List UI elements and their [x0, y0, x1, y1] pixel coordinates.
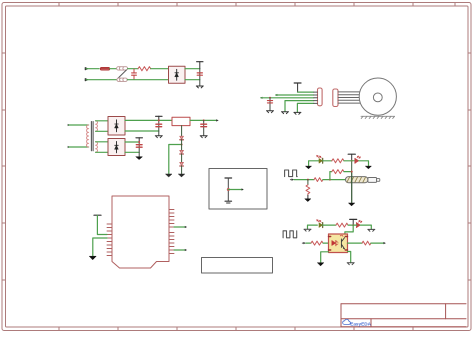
square wave symbol SW1: [285, 170, 298, 177]
transformer T1 primary winding: [87, 125, 89, 147]
wire LED2 to gnd: [359, 161, 369, 166]
junction dot: [203, 119, 205, 121]
capacitor C2: [156, 124, 162, 127]
resistor R5: [332, 159, 344, 163]
pin end P2: [275, 94, 277, 96]
ground GND7: [282, 112, 289, 114]
voltage regulator U2: [172, 117, 190, 125]
wire R1 to bridge: [151, 68, 169, 70]
wire rail over crystal: [351, 172, 353, 203]
LED LED2: [352, 156, 361, 163]
wire B3 plus: [125, 141, 139, 143]
wire sec2 top to bridge B3: [96, 141, 108, 143]
connector J1: [314, 88, 322, 106]
power flag V7: [225, 177, 232, 179]
junction dot: [307, 179, 309, 181]
wire B3 minus: [125, 151, 139, 153]
ground GND8: [294, 112, 301, 114]
pin end PU1: [242, 188, 244, 190]
wire conn pin4: [285, 101, 314, 112]
wire bridge out plus: [185, 68, 200, 70]
wire fuse to choke: [110, 68, 117, 70]
power flag V1: [156, 116, 162, 120]
pin AC2: [68, 146, 70, 148]
wire AC1 to primary: [69, 124, 89, 126]
ground GND9 arrow: [307, 195, 309, 199]
wire opto collector out: [348, 242, 363, 244]
power flag VDC1: [197, 62, 203, 69]
wire conn pin5: [297, 103, 313, 112]
bridge rectifier B1: [169, 66, 186, 83]
resistor R4: [332, 170, 344, 174]
pin CLK1: [292, 178, 294, 181]
ground GND14: [368, 229, 375, 231]
wire B2 plus to regulator: [125, 119, 172, 121]
LED LED1: [317, 155, 323, 163]
ground GND11 arrow: [306, 166, 312, 169]
wire N to choke: [86, 79, 117, 81]
LED LED3: [317, 220, 323, 228]
wire pullup stem: [227, 178, 229, 201]
wire B2 minus: [125, 130, 159, 132]
junction dot: [138, 141, 140, 143]
junction dot: [158, 119, 160, 121]
wire R4 to rail: [344, 171, 352, 173]
wire sec1 top to bridge B2: [96, 120, 108, 122]
wire conn pin1: [298, 91, 314, 93]
wire bridge out minus: [185, 79, 200, 81]
ground GND1: [196, 86, 203, 88]
junction dot: [329, 179, 331, 181]
bridge rectifier B2: [108, 117, 125, 136]
LED LED4: [357, 220, 362, 227]
ground GND15: [347, 263, 354, 265]
ground GND12 arrow: [366, 166, 372, 169]
wire LED1 to R5: [323, 160, 332, 162]
ground GND2: [155, 136, 162, 138]
wire R2 stem: [307, 180, 309, 185]
node N pin: [85, 79, 87, 81]
capacitor C5 stem: [269, 98, 271, 111]
wire branch to GND4: [169, 145, 182, 174]
resistor R8: [362, 241, 371, 245]
junction dot: [351, 171, 353, 173]
transformer T1 secondary winding 2: [96, 142, 98, 153]
motor M1 shaft: [373, 93, 382, 102]
motor mount earth: [361, 116, 395, 118]
choke core diagonal: [118, 70, 127, 79]
IC U1 left pins: [107, 224, 112, 256]
wire LED4 to gnd: [353, 225, 371, 229]
ground GND3: [200, 136, 207, 138]
wire R8 to pin: [371, 242, 384, 244]
capacitor C3: [201, 124, 207, 127]
capacitor CX1: [132, 69, 137, 79]
diode D2: [180, 150, 184, 162]
wire U1 out1: [174, 226, 185, 228]
pin end P3: [260, 97, 262, 99]
wire R5 to rail: [344, 160, 352, 162]
wire U1 vcc: [97, 215, 107, 234]
node L pin: [85, 68, 87, 70]
power flag V6: [94, 215, 101, 234]
transformer T1 core: [91, 122, 93, 151]
svg-text:EasyEDA: EasyEDA: [350, 321, 371, 326]
wire U1 out2: [174, 249, 185, 251]
diode D3: [180, 162, 184, 173]
resistor R2 vertical: [306, 185, 310, 195]
wire R3 to crystal: [323, 179, 346, 181]
resistor R6: [336, 223, 348, 227]
wire C2 stem: [158, 120, 160, 135]
wire D1 to D2: [181, 140, 183, 151]
transformer T1 secondary winding 1: [96, 121, 98, 132]
ground GND6: [267, 111, 274, 113]
motor leads: [338, 92, 360, 103]
connector J2: [333, 89, 338, 107]
wire AC2 to primary: [69, 146, 89, 148]
motor M1 body: [359, 78, 396, 115]
pin end U1out2: [185, 249, 187, 251]
square wave symbol SW2: [283, 231, 297, 238]
resistor R1: [138, 67, 151, 71]
wire rail to opto: [345, 225, 353, 234]
wire LED3 to R6: [323, 224, 336, 226]
wire IN2 to R7: [306, 242, 311, 244]
IC U1 right pins group2: [169, 233, 174, 254]
fuse F1: [100, 67, 109, 70]
pin end U1out1: [185, 226, 187, 228]
wire L to fuse: [86, 68, 99, 70]
wire C4 stem: [138, 142, 140, 156]
pin end OUT2: [384, 242, 386, 244]
IC U1 right pins group1: [169, 210, 174, 228]
diode D1: [180, 136, 184, 140]
wire sec2 bottom to bridge B3: [96, 151, 108, 153]
optocoupler U3: [329, 234, 348, 253]
crystal Y1 body: [346, 177, 380, 183]
title block table: [341, 304, 466, 327]
power flag V2: [136, 138, 142, 142]
module box frame: [209, 169, 267, 210]
wire R7 to opto: [323, 242, 328, 244]
wire choke bottom to bridge: [127, 79, 168, 81]
notes rectangle: [202, 258, 273, 274]
ground GND4 arrow: [166, 174, 172, 177]
wire R6 to junction: [348, 224, 353, 226]
EasyEDA logo: [343, 319, 372, 326]
wire CLK1 input: [294, 179, 314, 181]
pin end IN2: [303, 242, 305, 244]
wire regulator out: [190, 119, 216, 121]
ground GND13: [304, 229, 311, 231]
ground GND16 arrow: [89, 256, 96, 260]
ground AGND1: [136, 157, 143, 160]
junction dot: [269, 97, 271, 99]
wire sec1 bottom to bridge B2: [96, 130, 108, 132]
IC U1 body: [112, 196, 169, 268]
capacitor C4: [136, 145, 142, 148]
resistor R7: [311, 241, 323, 245]
wire conn pin3: [261, 97, 314, 99]
wire opto emitter to gnd: [348, 252, 351, 263]
bridge rectifier B3: [108, 139, 125, 156]
junction dot: [352, 224, 354, 226]
ground GND17 bar: [225, 201, 232, 203]
resistor R3: [314, 178, 323, 182]
wire choke to bridge top: [128, 68, 138, 70]
wire pullup out: [228, 189, 242, 191]
junction dot: [181, 144, 183, 146]
power flag V5: [350, 219, 357, 225]
wire feedback up: [330, 172, 332, 180]
wire V4 rail down: [351, 161, 353, 203]
capacitor C1: [197, 73, 202, 75]
wire LED1 row left: [309, 161, 319, 166]
wire conn pin2: [276, 94, 314, 96]
inductor L1 bottom winding: [117, 78, 127, 81]
pin AC1: [68, 124, 70, 126]
wire LED3 row left: [308, 225, 318, 229]
power flag V3: [294, 83, 301, 92]
inductor L1 top winding: [117, 67, 128, 70]
wire U1 gnd: [93, 238, 107, 256]
wire cap stem: [199, 69, 201, 86]
capacitor C5: [267, 101, 272, 103]
junction dot: [351, 160, 353, 162]
ground AGND2: [318, 263, 324, 266]
wire regulator down chain: [181, 126, 183, 137]
wire opto cathode to gnd: [321, 252, 329, 263]
junction dot: [227, 188, 230, 191]
ground GND5 arrow: [178, 174, 184, 177]
wire C3 stem: [203, 120, 205, 135]
power flag V4: [348, 154, 355, 161]
ground GND10 arrow: [349, 203, 355, 206]
